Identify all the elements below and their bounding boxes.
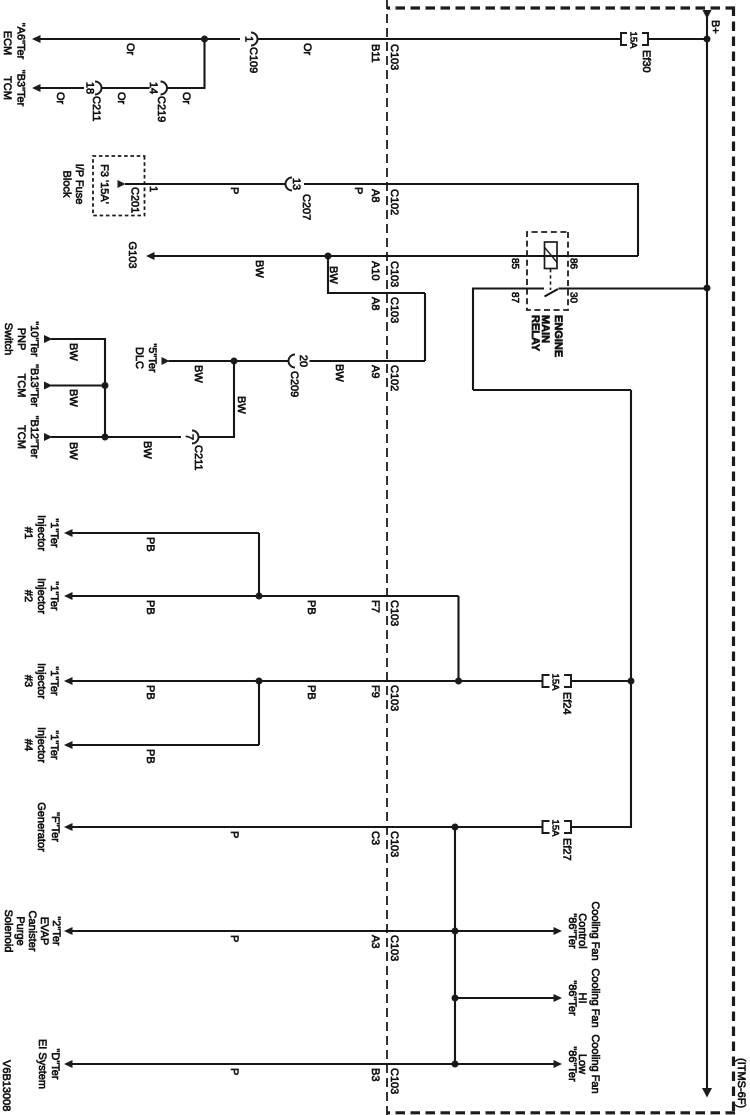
wire: TCM branch horizontal bbox=[203, 39, 205, 88]
svg-text:C209: C209 bbox=[288, 371, 300, 397]
node: junction EVAP/fan control bbox=[452, 928, 459, 935]
svg-text:30: 30 bbox=[568, 292, 579, 304]
wire: feed bus east bbox=[630, 390, 632, 827]
svg-text:(ITMS-6F): (ITMS-6F) bbox=[735, 1058, 747, 1108]
wire: BW link east to DLC wire bbox=[424, 293, 426, 361]
connector C209 (half circle) bbox=[288, 355, 309, 398]
svg-text:Or: Or bbox=[124, 43, 136, 56]
svg-text:C103: C103 bbox=[388, 831, 400, 857]
dashed border: left boundary bbox=[387, 6, 735, 9]
node: junction fan HI bbox=[452, 995, 459, 1002]
svg-text:RELAY: RELAY bbox=[529, 315, 541, 352]
arrow: to "B12"Ter TCM bbox=[44, 433, 53, 441]
wire: EVAP drop bbox=[66, 930, 455, 932]
svg-text:C103: C103 bbox=[388, 44, 400, 70]
svg-text:"86"Ter: "86"Ter bbox=[566, 980, 578, 1016]
svg-text:15A: 15A bbox=[550, 674, 561, 692]
svg-text:PB: PB bbox=[305, 685, 317, 700]
wire: branch east to B12 wire bbox=[233, 361, 235, 437]
wire: fan bus east bbox=[454, 827, 456, 1064]
svg-text:#2: #2 bbox=[22, 590, 34, 602]
connector C211 pin 7 (half circle) bbox=[183, 431, 204, 471]
wire: BW bus west bbox=[104, 339, 106, 437]
node: junction B+ rail / EF30 wire bbox=[704, 36, 711, 43]
wire: up run bbox=[473, 389, 631, 391]
wire: fuse to generator arrow bbox=[66, 826, 543, 828]
svg-text:BW: BW bbox=[67, 442, 79, 460]
svg-text:BW: BW bbox=[67, 389, 79, 407]
connector C207 (half circle) bbox=[286, 178, 313, 221]
wire: EF27 drop bbox=[571, 826, 632, 828]
wire: cooling fan HI up bbox=[455, 997, 560, 999]
node: junction inj1 link bbox=[256, 593, 263, 600]
arrow: to cooling fan HI bbox=[554, 994, 563, 1002]
svg-text:A8: A8 bbox=[369, 189, 381, 202]
svg-text:BW: BW bbox=[253, 260, 265, 278]
svg-text:C103: C103 bbox=[388, 685, 400, 711]
node: junction inj2 link bbox=[455, 678, 462, 685]
wire: C219 to C211 bbox=[102, 87, 150, 89]
node: junction DLC / C211 branch bbox=[231, 358, 238, 365]
wire: DLC wire down bbox=[310, 360, 426, 362]
wire: C211 to junction row bbox=[51, 436, 181, 438]
svg-text:C103: C103 bbox=[388, 600, 400, 626]
wire: inj2 link west bbox=[457, 596, 459, 681]
svg-text:Ef30: Ef30 bbox=[640, 50, 652, 73]
svg-text:EVAP: EVAP bbox=[38, 917, 50, 946]
svg-text:"5"Ter: "5"Ter bbox=[146, 343, 158, 373]
arrow: to TCM bbox=[32, 84, 41, 92]
svg-text:"86"Ter: "86"Ter bbox=[566, 1046, 578, 1082]
svg-text:TCM: TCM bbox=[15, 425, 27, 449]
svg-text:Cooling Fan: Cooling Fan bbox=[589, 901, 601, 960]
svg-text:7: 7 bbox=[183, 434, 195, 440]
svg-text:C103: C103 bbox=[388, 297, 400, 323]
svg-text:B3: B3 bbox=[369, 1068, 381, 1081]
node: junction BW branch bbox=[325, 253, 332, 260]
svg-text:"1"Ter: "1"Ter bbox=[48, 730, 60, 760]
wire: C109 to ECM arrow bbox=[34, 38, 240, 40]
svg-text:BW: BW bbox=[333, 364, 345, 382]
arrow: B+ rail end bbox=[702, 1088, 712, 1098]
svg-text:C3: C3 bbox=[369, 831, 381, 845]
svg-text:"B13"Ter: "B13"Ter bbox=[28, 364, 40, 407]
svg-text:Switch: Switch bbox=[2, 323, 14, 355]
wire: coil pin85 down to G103 arrow bbox=[153, 255, 557, 257]
svg-text:#4: #4 bbox=[22, 739, 34, 751]
svg-text:C103: C103 bbox=[388, 261, 400, 287]
node: junction EF24 bbox=[628, 678, 635, 685]
node: junction EI/fan low bbox=[452, 1061, 459, 1068]
svg-text:C219: C219 bbox=[155, 96, 167, 122]
wire: C207 up across C102 bbox=[304, 183, 638, 185]
svg-text:BW: BW bbox=[235, 396, 247, 414]
svg-text:"86"Ter: "86"Ter bbox=[566, 913, 578, 949]
relay switch blade bbox=[545, 289, 559, 297]
svg-text:C109: C109 bbox=[247, 47, 259, 73]
wire: injector 4 drop bbox=[66, 744, 259, 746]
wire: TCM branch down to C219 bbox=[167, 87, 206, 89]
node: junction fan bus bbox=[452, 824, 459, 831]
svg-text:C102: C102 bbox=[388, 365, 400, 391]
svg-text:"10"Ter: "10"Ter bbox=[28, 321, 40, 357]
wire: B13 drop bbox=[51, 384, 105, 386]
svg-text:F7: F7 bbox=[369, 600, 381, 613]
svg-text:85: 85 bbox=[509, 258, 520, 270]
wire: injector 2 drop bbox=[66, 595, 459, 597]
arrow: to generator bbox=[64, 823, 73, 831]
svg-text:G103: G103 bbox=[126, 242, 138, 269]
svg-text:#1: #1 bbox=[22, 527, 34, 539]
relay coil (rect with diagonal) bbox=[545, 242, 558, 269]
svg-text:Or: Or bbox=[180, 92, 192, 105]
svg-text:"B12"Ter: "B12"Ter bbox=[28, 416, 40, 459]
connector C211 pin 18 (half circle) bbox=[84, 82, 103, 122]
arrow: to EI system bbox=[64, 1060, 73, 1068]
dashed border: compartment boundary line (C103 connector line) bbox=[386, 0, 388, 1115]
svg-text:"1"Ter: "1"Ter bbox=[48, 666, 60, 696]
svg-text:BW: BW bbox=[192, 365, 204, 383]
node: junction inj4 link bbox=[256, 678, 263, 685]
arrow: to injector 2 bbox=[64, 592, 73, 600]
svg-text:ECM: ECM bbox=[1, 31, 13, 55]
svg-text:ENGINE: ENGINE bbox=[552, 315, 564, 357]
node: junction to TCM branch bbox=[201, 36, 208, 43]
arrow: to injector 4 bbox=[64, 741, 73, 749]
svg-text:C201: C201 bbox=[129, 187, 141, 213]
svg-text:PB: PB bbox=[144, 600, 156, 615]
node: junction B+ rail / relay pin30 wire bbox=[704, 285, 711, 292]
arrow: to G103 bbox=[146, 252, 155, 260]
wire: down to relay coil pin 86 bbox=[557, 255, 638, 257]
svg-text:Ef24: Ef24 bbox=[561, 692, 573, 715]
connector C109 (half circle) bbox=[243, 33, 260, 74]
svg-text:Purge: Purge bbox=[14, 916, 26, 945]
svg-text:Cooling Fan: Cooling Fan bbox=[589, 1034, 601, 1093]
svg-text:P: P bbox=[352, 187, 364, 194]
svg-text:PB: PB bbox=[144, 749, 156, 764]
relay dashed box bbox=[527, 232, 568, 310]
svg-text:Or: Or bbox=[115, 92, 127, 105]
svg-text:Generator: Generator bbox=[35, 802, 47, 852]
svg-text:BW: BW bbox=[327, 266, 339, 284]
svg-text:Ef27: Ef27 bbox=[561, 838, 573, 861]
svg-text:87: 87 bbox=[509, 292, 520, 304]
svg-text:A10: A10 bbox=[369, 261, 381, 281]
wire: B+ rail bbox=[706, 17, 708, 1089]
svg-text:15A: 15A bbox=[550, 820, 561, 838]
arrow: to cooling fan low bbox=[554, 1060, 563, 1068]
arrow: to injector 1 bbox=[64, 529, 73, 537]
svg-text:PB: PB bbox=[305, 600, 317, 615]
arrow: to injector 3 bbox=[64, 677, 73, 685]
svg-text:BW: BW bbox=[67, 343, 79, 361]
wire: PNP drop bbox=[51, 338, 106, 340]
svg-text:A3: A3 bbox=[369, 935, 381, 948]
wire: cooling fan control up bbox=[455, 930, 560, 932]
wire: BW branch east bbox=[327, 256, 329, 293]
svg-text:1: 1 bbox=[147, 186, 159, 192]
wire: east run bbox=[472, 288, 474, 391]
svg-text:Canister: Canister bbox=[26, 911, 38, 952]
svg-text:V6B13008: V6B13008 bbox=[0, 1060, 12, 1111]
wire: fuse to C109 bbox=[258, 38, 621, 40]
svg-text:"2"Ter: "2"Ter bbox=[50, 916, 62, 946]
node: junction B13 bbox=[102, 382, 109, 389]
svg-text:A8: A8 bbox=[369, 297, 381, 310]
arrow: to DLC bbox=[162, 357, 170, 365]
svg-text:"F"Ter: "F"Ter bbox=[49, 812, 61, 842]
svg-text:Block: Block bbox=[61, 171, 73, 198]
svg-text:20: 20 bbox=[297, 355, 309, 367]
wire: EI system drop bbox=[66, 1063, 455, 1065]
arrow: to cooling fan control bbox=[554, 927, 563, 935]
svg-text:B+: B+ bbox=[709, 20, 721, 34]
svg-text:"1"Ter: "1"Ter bbox=[48, 581, 60, 611]
svg-text:P: P bbox=[228, 1068, 240, 1075]
connector C219 (half circle) bbox=[147, 82, 167, 123]
wire: inj4 link east bbox=[258, 681, 260, 745]
svg-text:TCM: TCM bbox=[15, 374, 27, 398]
svg-text:"A6"Ter: "A6"Ter bbox=[15, 23, 27, 60]
wire: down to C211 pin7 bbox=[199, 436, 236, 438]
svg-text:C103: C103 bbox=[388, 935, 400, 961]
svg-text:B11: B11 bbox=[369, 44, 381, 63]
arrow: to "B13"Ter TCM bbox=[44, 382, 53, 390]
svg-text:13: 13 bbox=[290, 178, 302, 190]
svg-text:"B3"Ter: "B3"Ter bbox=[15, 70, 27, 107]
dashed border: top boundary bbox=[732, 7, 735, 1115]
wire: EF30 drop, rail to fuse bbox=[649, 38, 707, 40]
svg-text:Injector: Injector bbox=[35, 515, 47, 551]
wire: relay pin30 from rail bbox=[559, 287, 708, 289]
svg-text:Injector: Injector bbox=[35, 663, 47, 699]
svg-text:Solenoid: Solenoid bbox=[2, 910, 14, 953]
svg-text:C102: C102 bbox=[388, 189, 400, 215]
arrow: to "10"Ter PNP switch bbox=[44, 335, 53, 343]
wire: C211 to TCM arrow bbox=[34, 87, 84, 89]
svg-text:DLC: DLC bbox=[133, 347, 145, 369]
wire: inj1 link west bbox=[258, 533, 260, 596]
relay actuator dashed link bbox=[550, 269, 552, 290]
fuse Ef30 15A bbox=[621, 32, 652, 73]
wire: C209 to DLC arrow bbox=[169, 360, 289, 362]
svg-text:C103: C103 bbox=[388, 1068, 400, 1094]
svg-text:Injector: Injector bbox=[35, 578, 47, 614]
svg-text:C207: C207 bbox=[300, 194, 312, 220]
svg-text:I/P Fuse: I/P Fuse bbox=[73, 164, 85, 205]
svg-text:Injector: Injector bbox=[35, 727, 47, 763]
wire: fuse to injector 3 arrow bbox=[66, 680, 543, 682]
svg-text:F3 '15A': F3 '15A' bbox=[98, 164, 110, 204]
svg-text:PB: PB bbox=[144, 685, 156, 700]
svg-text:Or: Or bbox=[54, 92, 66, 105]
arrow: to EVAP solenoid bbox=[64, 927, 73, 935]
svg-text:P: P bbox=[228, 187, 240, 194]
svg-text:P: P bbox=[228, 935, 240, 942]
svg-text:C211: C211 bbox=[192, 445, 204, 470]
svg-text:EI System: EI System bbox=[36, 1039, 48, 1089]
dashed border: right boundary bbox=[387, 1111, 735, 1114]
svg-text:BW: BW bbox=[141, 441, 153, 459]
wire: pin 87 down bbox=[473, 287, 544, 289]
arrow: to ECM bbox=[32, 35, 41, 43]
wire: top run to relay bbox=[637, 183, 639, 256]
wire: cooling fan low up bbox=[455, 1063, 560, 1065]
svg-text:"D"Ter: "D"Ter bbox=[49, 1048, 61, 1079]
svg-text:18: 18 bbox=[84, 82, 96, 94]
I/P fuse block F3 (dashed box) bbox=[93, 156, 145, 216]
fuse Ef27 15A bbox=[543, 820, 573, 861]
svg-text:86: 86 bbox=[568, 258, 579, 270]
svg-text:A9: A9 bbox=[369, 365, 381, 378]
svg-text:PB: PB bbox=[144, 537, 156, 552]
svg-text:1: 1 bbox=[243, 36, 255, 42]
svg-text:PNP: PNP bbox=[15, 328, 27, 351]
svg-text:TCM: TCM bbox=[1, 76, 13, 100]
fuse Ef24 15A bbox=[543, 674, 573, 715]
svg-text:F9: F9 bbox=[369, 685, 381, 698]
wire: injector 1 drop bbox=[66, 532, 259, 534]
svg-text:Cooling Fan: Cooling Fan bbox=[589, 968, 601, 1027]
B+ source triangle bbox=[703, 10, 712, 19]
node: junction B12 row bbox=[102, 434, 109, 441]
svg-text:#3: #3 bbox=[22, 675, 34, 687]
svg-text:15A: 15A bbox=[628, 32, 639, 50]
svg-text:"1"Ter: "1"Ter bbox=[48, 518, 60, 548]
wire: EF24 drop bbox=[571, 680, 631, 682]
wire: F3 to C207 bbox=[125, 183, 286, 185]
svg-text:P: P bbox=[228, 831, 240, 838]
svg-text:Or: Or bbox=[301, 43, 313, 56]
wire: BW branch up across C103 A8 bbox=[327, 292, 425, 294]
svg-text:C211: C211 bbox=[90, 96, 102, 121]
